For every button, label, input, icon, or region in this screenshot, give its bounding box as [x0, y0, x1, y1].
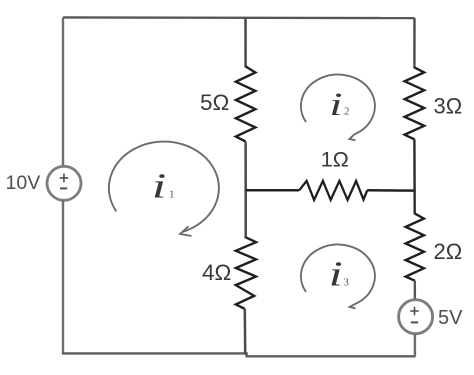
wire: left branch lower segment (10V source to bottom-left corner) [62, 200, 64, 354]
svg-text:3: 3 [343, 277, 349, 289]
svg-text:3Ω: 3Ω [434, 93, 463, 118]
wire: right branch between 3-ohm and middle junction [413, 139, 416, 191]
svg-text:i: i [152, 166, 167, 205]
resistor R2 4ohm [236, 237, 256, 308]
wire: middle branch between 5-ohm and centre node [244, 142, 247, 191]
wire: middle branch bottom lead (4-ohm to bottom wire) [244, 309, 247, 355]
wire: right branch between 2-ohm and 5V source [414, 281, 417, 301]
svg-text:10V: 10V [6, 172, 41, 194]
wire: right branch top lead (top-right corner to 3-ohm) [413, 18, 416, 68]
svg-text:1Ω: 1Ω [321, 147, 349, 171]
wire: middle horizontal right lead (1-ohm to right branch) [367, 189, 414, 192]
resistor R1 5ohm [236, 66, 256, 141]
svg-text:4Ω: 4Ω [202, 260, 231, 285]
resistor R3 1ohm [299, 181, 367, 200]
svg-text:2Ω: 2Ω [434, 239, 463, 264]
wire: middle branch between centre node and 4-ohm [244, 190, 247, 239]
wire: bottom side with slight jog at centre junction [62, 353, 416, 356]
wire: right branch between middle junction and 2-ohm [413, 190, 416, 215]
svg-text:5V: 5V [438, 307, 463, 329]
svg-text:i: i [329, 255, 343, 294]
wire: top side, top-left corner to top-right corner [63, 16, 415, 19]
wire: left branch upper segment (top-left corner to 10V source) [62, 17, 64, 166]
svg-text:1: 1 [169, 189, 175, 201]
voltage source V1 10V [47, 166, 81, 200]
resistor R5 2ohm [406, 213, 424, 280]
mesh current arrow i2 (clockwise loop, top-right mesh) [301, 75, 375, 141]
resistor R4 3ohm [405, 67, 425, 139]
wire: right branch bottom lead (5V source to bottom-right corner) [414, 334, 416, 356]
wire: middle branch top lead (top wire to 5-ohm resistor) [244, 17, 247, 67]
voltage source V2 5V [399, 300, 433, 334]
wire: middle horizontal left lead (centre node to 1-ohm) [246, 189, 300, 192]
svg-text:i: i [329, 85, 342, 122]
mesh current arrow i1 (clockwise loop, left mesh) [109, 142, 219, 236]
svg-text:5Ω: 5Ω [200, 90, 229, 115]
svg-text:2: 2 [344, 105, 350, 117]
mesh current arrow i3 (clockwise loop, bottom-right mesh) [301, 245, 375, 309]
